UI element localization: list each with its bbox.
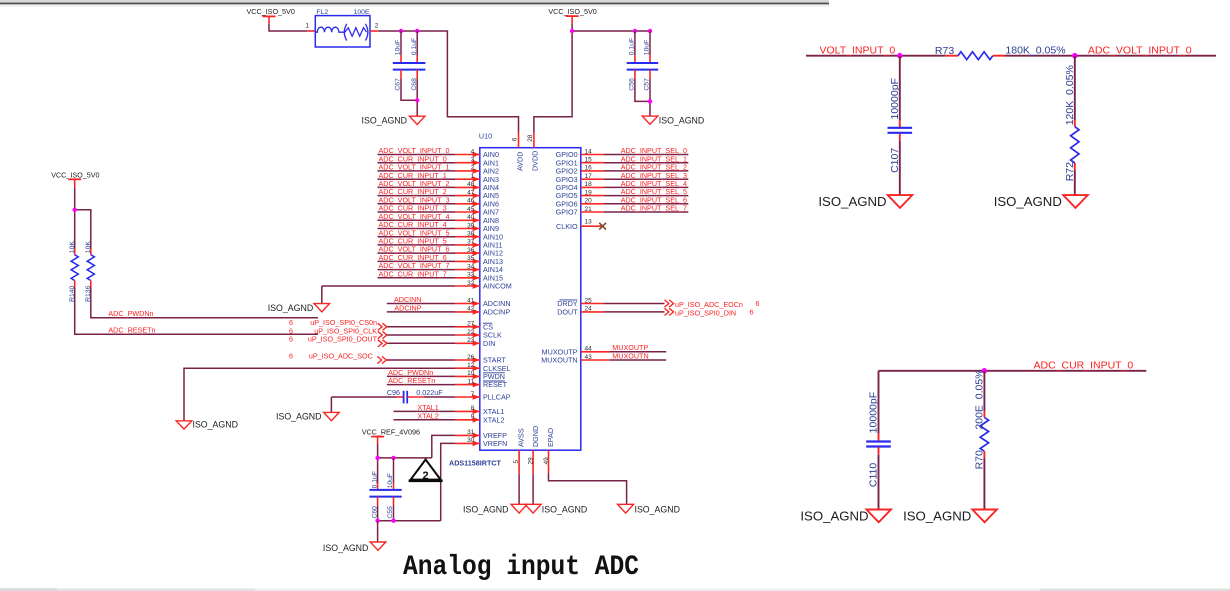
svg-text:1: 1: [305, 22, 309, 29]
svg-text:ADCINP: ADCINP: [483, 308, 510, 317]
wire net ADC_CUR_INPUT_2 to pin AIN5: [378, 195, 456, 197]
junction C68 tap: [415, 29, 419, 33]
svg-text:100E: 100E: [354, 9, 370, 16]
svg-text:12: 12: [467, 362, 475, 369]
pin DVDD stub: [533, 133, 535, 148]
svg-text:ADC_CUR_INPUT_7: ADC_CUR_INPUT_7: [379, 269, 447, 278]
svg-text:20: 20: [585, 198, 593, 205]
wire net ADC_INPUT_SEL_1 from pin GPIO1: [581, 162, 604, 164]
wire net uP_ISO_ADC_EOCn from pin DRDY: [581, 303, 605, 305]
svg-text:200E_0.05%: 200E_0.05%: [974, 369, 986, 429]
svg-text:45: 45: [467, 206, 475, 213]
junction R72 tap: [1072, 53, 1078, 59]
capacitor C96 0.022uF on PLLCAP: [331, 396, 396, 398]
wire VCC to FL2 pin1: [268, 16, 270, 23]
svg-text:2: 2: [423, 470, 429, 482]
svg-text:C110: C110: [868, 463, 880, 487]
svg-text:6: 6: [289, 335, 293, 344]
junction C57 tap: [648, 29, 652, 33]
wire net uP_ISO_SPI0_CS0n to pin CS: [387, 326, 455, 328]
svg-text:EPAD: EPAD: [546, 428, 555, 447]
wire VCC to R140/R136: [74, 179, 76, 187]
junction C56-C57 bottom: [648, 99, 652, 103]
ground ISO_AGND below R72: [1063, 195, 1088, 208]
svg-text:38: 38: [467, 231, 475, 238]
junction C67 tap: [399, 29, 403, 33]
svg-text:ADCINP: ADCINP: [394, 304, 421, 313]
svg-text:DOUT: DOUT: [557, 308, 578, 317]
capacitor C107 10000pF: [899, 56, 901, 120]
svg-text:AVDD: AVDD: [515, 152, 524, 171]
svg-text:0.022uF: 0.022uF: [416, 388, 443, 397]
capacitor C110 10000pF: [878, 371, 880, 434]
svg-text:10000pF: 10000pF: [889, 78, 901, 119]
svg-text:R72: R72: [1064, 162, 1076, 181]
svg-text:6: 6: [512, 137, 519, 141]
svg-text:RESET: RESET: [483, 380, 508, 389]
svg-text:41: 41: [467, 297, 475, 304]
svg-text:ADC_RESETn: ADC_RESETn: [108, 326, 155, 335]
wire net ADC_INPUT_SEL_5 from pin GPIO5: [581, 195, 604, 197]
svg-text:15: 15: [585, 157, 593, 164]
svg-text:VCC_ISO_5V0: VCC_ISO_5V0: [51, 171, 99, 180]
ground ISO_AGND at CLKSEL: [176, 421, 192, 429]
note triangle 2: [411, 460, 441, 480]
power symbol VCC_ISO_5V0: [566, 15, 579, 17]
svg-text:ISO_AGND: ISO_AGND: [463, 504, 508, 514]
svg-text:ISO_AGND: ISO_AGND: [659, 115, 704, 125]
resistor R73 180K_0.05%: [958, 52, 993, 60]
ground ISO_AGND below C68: [409, 116, 425, 124]
svg-text:ISO_AGND: ISO_AGND: [193, 420, 238, 430]
wire net ADC_RESETn to pin RESET: [387, 384, 455, 386]
wire net ADC_CUR_INPUT_7 to pin AIN15: [378, 277, 456, 279]
resistor R140 10K: [74, 249, 76, 255]
pin DGND stub to ground: [532, 450, 534, 474]
svg-text:XTAL2: XTAL2: [417, 411, 438, 420]
resistor R136 10K: [90, 249, 92, 255]
svg-text:29: 29: [527, 457, 534, 465]
pin AVDD stub: [518, 133, 520, 148]
svg-text:PLLCAP: PLLCAP: [483, 393, 511, 402]
svg-text:6: 6: [750, 308, 754, 317]
power symbol VCC_ISO_5V0: [263, 15, 276, 17]
window bottom bar: [0, 589, 1230, 591]
op IC U10 ADS1158IRTCT body: [480, 148, 581, 451]
svg-text:10K: 10K: [69, 241, 76, 254]
ground ISO_AGND below C107: [888, 195, 913, 208]
junction VCC rail: [570, 29, 574, 33]
wire net ADCINN: [387, 303, 455, 305]
svg-text:VCC_REF_4V096: VCC_REF_4V096: [362, 427, 420, 436]
wire net uP_ISO_SPI0_CLK to pin SCLK: [387, 334, 455, 336]
svg-text:CLKIO: CLKIO: [556, 222, 578, 231]
svg-text:10uF: 10uF: [644, 40, 651, 56]
off-page connector uP_ISO_SPI0_DOUT: [378, 340, 387, 347]
junction C55 tap: [391, 456, 395, 460]
svg-text:C67: C67: [395, 78, 402, 91]
capacitor C67 10uF: [400, 31, 402, 55]
svg-text:49: 49: [543, 457, 550, 465]
svg-text:MUXOUTN: MUXOUTN: [612, 351, 648, 360]
svg-text:13: 13: [585, 219, 593, 226]
svg-text:7: 7: [471, 391, 475, 398]
svg-text:18: 18: [585, 181, 593, 188]
svg-text:ADC_VOLT_INPUT_0: ADC_VOLT_INPUT_0: [1088, 44, 1192, 56]
svg-text:ISO_AGND: ISO_AGND: [276, 412, 321, 422]
svg-text:21: 21: [585, 206, 593, 213]
svg-text:37: 37: [467, 239, 475, 246]
wire net ADC_CUR_INPUT_5 to pin AIN11: [378, 244, 456, 246]
svg-text:ADS1158IRTCT: ADS1158IRTCT: [449, 458, 502, 467]
junction R136 branch: [73, 208, 77, 212]
svg-text:16: 16: [585, 165, 593, 172]
wire net MUXOUTN: [581, 359, 610, 361]
power symbol VCC_REF_4V096: [371, 436, 384, 438]
svg-text:R140: R140: [69, 285, 76, 301]
wire VREFN to bottom rail: [441, 443, 455, 520]
svg-text:uP_ISO_SPI0_DIN: uP_ISO_SPI0_DIN: [675, 309, 736, 318]
svg-text:36: 36: [467, 247, 475, 254]
svg-text:39: 39: [467, 222, 475, 229]
svg-text:AINCOM: AINCOM: [483, 282, 512, 291]
wire C96 left to ground: [330, 397, 332, 412]
svg-text:R70: R70: [974, 450, 986, 469]
wire net ADCINP: [387, 311, 455, 313]
svg-text:10K: 10K: [85, 241, 92, 254]
svg-text:47: 47: [467, 189, 475, 196]
svg-text:C96: C96: [387, 388, 400, 397]
wire net ADC_INPUT_SEL_4 from pin GPIO4: [581, 186, 604, 188]
junction C107 tap: [897, 53, 903, 59]
junction C67-C68 bottom: [415, 98, 419, 102]
wire VCC to DVDD: [571, 16, 573, 24]
off-page connector uP_ISO_ADC_SOC: [377, 356, 386, 363]
svg-text:ADC_INPUT_SEL_7: ADC_INPUT_SEL_7: [621, 204, 687, 213]
ground ISO_AGND below R70: [972, 510, 997, 523]
window top bar: [0, 0, 829, 3]
ground ISO_AGND at DGND: [525, 504, 541, 513]
svg-text:22: 22: [467, 329, 475, 336]
no-connect X on CLKIO: [599, 223, 606, 230]
wire net ADC_VOLT_INPUT_2 to pin AIN4: [378, 186, 456, 188]
junction bottom rail C60: [375, 519, 379, 523]
svg-text:40: 40: [467, 214, 475, 221]
svg-text:19: 19: [585, 189, 593, 196]
svg-text:C56: C56: [629, 78, 636, 91]
svg-text:DVDD: DVDD: [531, 151, 540, 171]
svg-text:FL2: FL2: [316, 9, 328, 16]
capacitor C60 0.1uF: [377, 483, 379, 490]
svg-text:31: 31: [467, 429, 475, 436]
svg-text:180K_0.05%: 180K_0.05%: [1005, 44, 1065, 56]
svg-text:VOLT_INPUT_0: VOLT_INPUT_0: [820, 44, 896, 56]
svg-text:ISO_AGND: ISO_AGND: [323, 543, 368, 553]
off-page connector uP_ISO_SPI0_DIN: [665, 308, 674, 315]
junction R70 tap: [982, 368, 988, 374]
wire net ADC_INPUT_SEL_7 from pin GPIO7: [581, 211, 604, 213]
junction bottom rail C55: [391, 519, 395, 523]
svg-text:ISO_AGND: ISO_AGND: [542, 504, 587, 514]
svg-text:ADC_PWDNn: ADC_PWDNn: [108, 309, 153, 318]
wire net ADC_VOLT_INPUT_4 to pin AIN8: [378, 219, 456, 221]
svg-text:10: 10: [467, 370, 475, 377]
wire net ADC_INPUT_SEL_2 from pin GPIO2: [581, 170, 604, 172]
wire CLKSEL to ground: [184, 368, 455, 421]
svg-text:0.1uF: 0.1uF: [411, 38, 418, 55]
capacitor C57 10uF: [649, 31, 651, 55]
junction C56 tap: [633, 29, 637, 33]
svg-text:10000pF: 10000pF: [868, 392, 880, 433]
svg-text:VCC_ISO_5V0: VCC_ISO_5V0: [247, 7, 295, 16]
svg-text:0.1uF: 0.1uF: [629, 38, 636, 55]
svg-text:26: 26: [467, 354, 475, 361]
wire net VOLT_INPUT_0 / ADC_VOLT_INPUT_0: [806, 55, 946, 57]
wire net uP_ISO_SPI0_DIN from pin DOUT: [581, 311, 605, 313]
wire net ADC_VOLT_INPUT_5 to pin AIN10: [378, 236, 456, 238]
svg-text:0.1uF: 0.1uF: [371, 471, 378, 488]
wire net XTAL2: [394, 419, 456, 421]
wire net ADC_CUR_INPUT_6 to pin AIN13: [378, 260, 456, 262]
svg-text:C107: C107: [889, 148, 901, 173]
ground ISO_AGND at C96: [324, 412, 340, 420]
svg-text:8: 8: [471, 405, 475, 412]
svg-text:C68: C68: [411, 78, 418, 91]
svg-text:11: 11: [468, 378, 475, 385]
svg-text:ADC_CUR_INPUT_0: ADC_CUR_INPUT_0: [1034, 359, 1134, 371]
wire net ADC_VOLT_INPUT_3 to pin AIN6: [378, 203, 456, 205]
wire net ADC_VOLT_INPUT_7 to pin AIN14: [378, 269, 456, 271]
svg-text:ISO_AGND: ISO_AGND: [268, 303, 313, 313]
svg-text:ISO_AGND: ISO_AGND: [818, 194, 886, 209]
svg-text:R73: R73: [935, 45, 954, 57]
svg-text:R136: R136: [85, 285, 92, 301]
off-page connector uP_ISO_SPI0_CLK: [378, 331, 387, 338]
capacitor C68 0.1uF: [416, 31, 418, 55]
ground ISO_AGND at AVSS: [511, 504, 527, 513]
svg-text:32: 32: [467, 280, 475, 287]
svg-text:DIN: DIN: [483, 339, 495, 348]
svg-text:34: 34: [467, 263, 475, 270]
svg-text:43: 43: [585, 354, 593, 361]
wire VCC_REF rail: [377, 437, 379, 444]
svg-text:VREFN: VREFN: [483, 439, 507, 448]
svg-text:C57: C57: [644, 78, 651, 91]
resistor R70 200E_0.05%: [983, 371, 985, 411]
svg-text:ISO_AGND: ISO_AGND: [903, 509, 971, 524]
svg-text:42: 42: [467, 306, 475, 313]
svg-text:35: 35: [467, 255, 475, 262]
svg-text:2: 2: [375, 22, 379, 29]
svg-text:120K_0.05%: 120K_0.05%: [1064, 65, 1076, 125]
svg-text:24: 24: [585, 306, 593, 313]
wire net ADC_CUR_INPUT_4 to pin AIN9: [378, 228, 456, 230]
wire net XTAL1: [394, 410, 456, 412]
svg-text:23: 23: [467, 337, 475, 344]
svg-text:25: 25: [585, 297, 593, 304]
svg-text:5: 5: [513, 460, 520, 464]
pin EPAD stub routed to ground: [548, 450, 550, 473]
ground ISO_AGND at EPAD: [618, 504, 634, 513]
svg-text:4: 4: [471, 148, 475, 155]
junction C60 tap: [375, 456, 379, 460]
svg-text:3: 3: [471, 157, 475, 164]
wire net ADC_VOLT_INPUT_1 to pin AIN2: [378, 170, 456, 172]
svg-text:ADC_RESETn: ADC_RESETn: [388, 376, 435, 385]
svg-text:ISO_AGND: ISO_AGND: [635, 504, 680, 514]
svg-text:uP_ISO_ADC_SOC: uP_ISO_ADC_SOC: [309, 351, 373, 360]
svg-text:28: 28: [527, 134, 534, 142]
svg-text:2: 2: [471, 165, 475, 172]
capacitor C55 10uF: [393, 483, 395, 490]
svg-text:9: 9: [471, 414, 475, 421]
ferrite filter FL2: [315, 16, 370, 47]
wire net ADC_VOLT_INPUT_0 to pin AIN0: [378, 154, 456, 156]
wire net ADC_CUR_INPUT_1 to pin AIN3: [378, 178, 456, 180]
wire net ADC_INPUT_SEL_6 from pin GPIO6: [581, 203, 604, 205]
resistor R72 120K_0.05%: [1074, 56, 1076, 120]
svg-text:C60: C60: [371, 506, 378, 519]
svg-text:DGND: DGND: [531, 426, 540, 447]
svg-text:uP_ISO_SPI0_DOUT: uP_ISO_SPI0_DOUT: [308, 335, 378, 344]
pin AVSS stub to ground: [518, 450, 520, 474]
svg-text:ISO_AGND: ISO_AGND: [800, 509, 868, 524]
ground ISO_AGND below C110: [866, 510, 891, 523]
svg-text:6: 6: [289, 351, 293, 360]
wire net ADC_CUR_INPUT_0 to pin AIN1: [378, 162, 456, 164]
wire net ADC_PWDNn to pin PWDN: [387, 375, 455, 377]
wire VREFP from VCC_REF rail: [432, 435, 455, 458]
ground ISO_AGND below C57: [642, 116, 658, 124]
wire net ADC_CUR_INPUT_3 to pin AIN7: [378, 211, 456, 213]
wire pin CLKIO no-connect stub: [581, 225, 603, 227]
svg-text:GPIO7: GPIO7: [556, 208, 578, 217]
wire net ADC_VOLT_INPUT_6 to pin AIN12: [378, 252, 456, 254]
svg-text:10uF: 10uF: [395, 40, 402, 56]
wire net ADC_INPUT_SEL_0 from pin GPIO0: [581, 154, 604, 156]
svg-text:48: 48: [467, 181, 475, 188]
svg-text:ISO_AGND: ISO_AGND: [994, 194, 1062, 209]
svg-text:MUXOUTN: MUXOUTN: [541, 356, 577, 365]
svg-text:44: 44: [585, 346, 593, 353]
svg-text:10uF: 10uF: [387, 473, 394, 489]
svg-text:C55: C55: [387, 506, 394, 519]
svg-text:VCC_ISO_5V0: VCC_ISO_5V0: [548, 7, 596, 16]
wire net MUXOUTP: [581, 351, 610, 353]
svg-text:30: 30: [467, 437, 475, 444]
svg-text:1: 1: [471, 173, 475, 180]
svg-text:U10: U10: [479, 132, 492, 141]
off-page connector uP_ISO_SPI0_CS0n: [378, 323, 387, 330]
svg-text:14: 14: [585, 148, 593, 155]
power symbol VCC_ISO_5V0: [68, 178, 81, 180]
ground ISO_AGND below C60: [370, 542, 386, 550]
wire net uP_ISO_ADC_SOC to pin START: [387, 359, 456, 361]
wire FL2 pin2 to AVDD: [370, 30, 378, 32]
svg-text:6: 6: [756, 299, 760, 308]
off-page connector uP_ISO_ADC_EOCn: [665, 300, 674, 307]
svg-text:17: 17: [585, 173, 593, 180]
wire bottom VREF rail to ground: [378, 520, 441, 522]
svg-text:XTAL2: XTAL2: [483, 415, 504, 424]
svg-text:Analog input ADC: Analog input ADC: [403, 552, 639, 583]
svg-text:ISO_AGND: ISO_AGND: [362, 115, 407, 125]
svg-text:33: 33: [467, 272, 475, 279]
svg-text:AVSS: AVSS: [517, 428, 526, 447]
wire net uP_ISO_SPI0_DOUT to pin DIN: [387, 342, 455, 344]
svg-text:27: 27: [467, 321, 475, 328]
capacitor C56 0.1uF: [634, 31, 636, 55]
ground ISO_AGND at AINCOM: [314, 304, 330, 312]
wire net ADC_CUR_INPUT_0: [879, 370, 1147, 372]
svg-text:46: 46: [467, 198, 475, 205]
wire AINCOM to ground: [322, 285, 455, 287]
wire net ADC_INPUT_SEL_3 from pin GPIO3: [581, 178, 604, 180]
